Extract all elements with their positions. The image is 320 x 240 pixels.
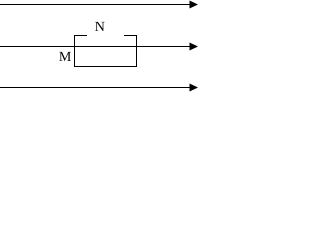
arrowhead of wire W2 [190,43,199,51]
arrowhead of wire W3 [190,84,199,92]
background [0,0,199,92]
arrowhead of wire W1 [190,1,199,9]
wire W3 (bottom line) [0,87,191,88]
component box: right vertical side [136,35,137,67]
wire W1 (top line) [0,4,191,5]
svg-text:N: N [95,20,105,35]
component box on wire W2: left vertical side [74,35,75,67]
svg-text:M: M [59,50,72,65]
component box: top-right bracket segment [124,35,137,36]
component box: bottom edge [74,66,137,67]
wire W2 (middle line) [0,46,191,47]
component box: top-left bracket segment [74,35,87,36]
